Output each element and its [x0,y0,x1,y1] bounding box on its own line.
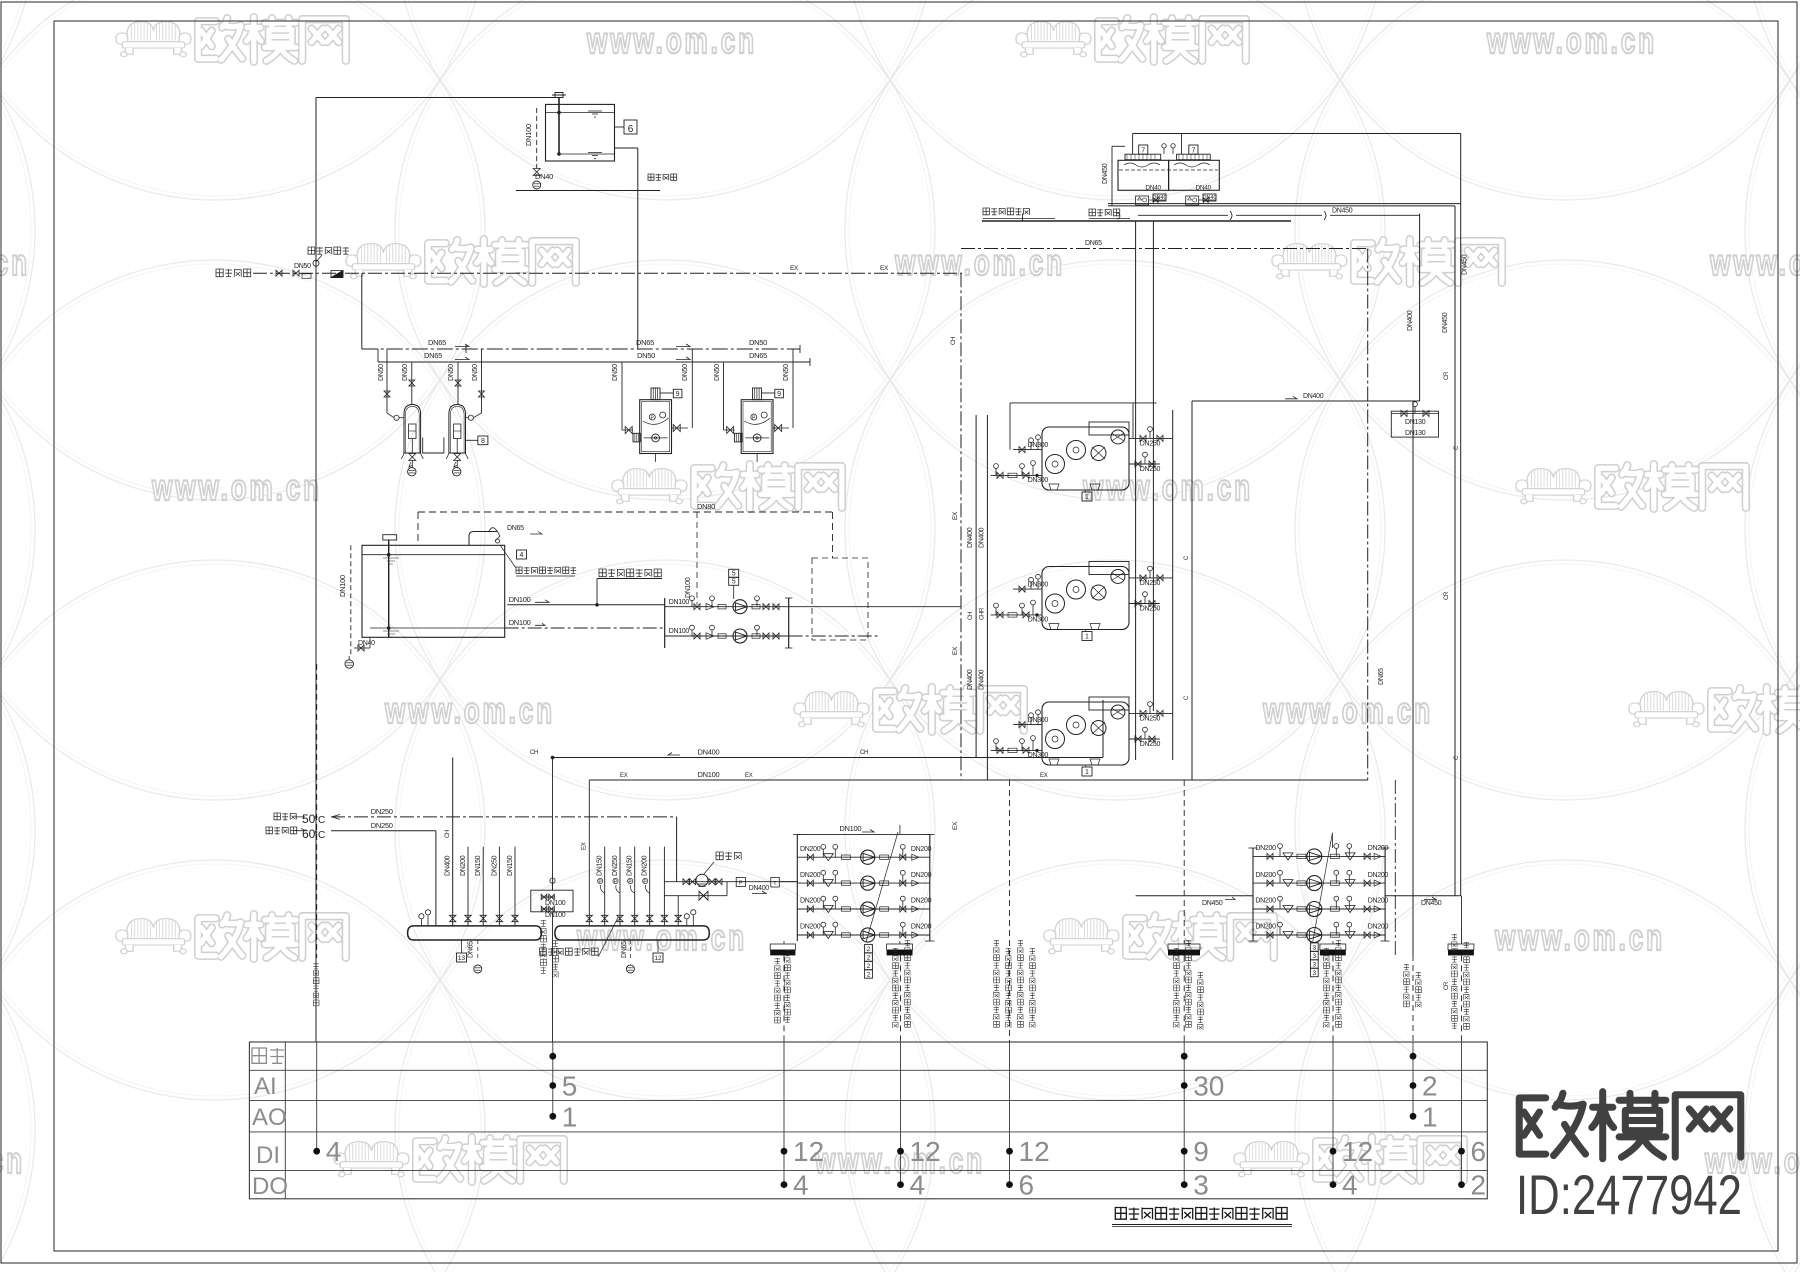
svg-text:3: 3 [1312,945,1316,952]
svg-text:DN200: DN200 [800,924,821,931]
svg-text:CH: CH [968,612,974,620]
svg-text:DN200: DN200 [1255,924,1276,931]
svg-text:12: 12 [793,1136,824,1167]
heat exchanger HX1 [640,400,672,454]
svg-text:DN200: DN200 [911,924,932,931]
svg-text:4: 4 [1342,1170,1358,1201]
wire: 60C drop to manifold [435,831,437,926]
svg-text:DN65: DN65 [507,525,524,532]
wire: CH DN400 main [553,757,1104,759]
wire: monitor column x=552.5 [552,758,554,891]
svg-text:www.om.cn: www.om.cn [1082,467,1253,508]
M1 drain: label 13 box [461,940,463,953]
svg-text:DN250: DN250 [1140,741,1161,748]
svg-text:DN40: DN40 [1196,185,1212,192]
tank left DN100 dashed level pipe [350,545,352,656]
svg-text:3: 3 [1193,1170,1209,1201]
svg-text:DN450: DN450 [1462,254,1469,275]
chiller unit CH3 [1042,702,1129,765]
svg-text:DI: DI [256,1142,280,1169]
svg-text:DN200: DN200 [1255,845,1276,852]
M1 end instruments [420,919,422,926]
roof slab line (thick) [982,220,1291,222]
svg-text:DN250: DN250 [371,807,393,816]
drain pan between vessels [423,438,444,454]
svg-text:5: 5 [732,579,736,586]
svg-text:DN150: DN150 [627,855,634,876]
wire: EX DN100 line [589,779,1367,781]
wire: EX expansion dash-dot riser [960,273,962,780]
leader diagonal bank1 [866,832,898,942]
svg-text:AI: AI [254,1073,277,1100]
wire: bank2 right header [1384,848,1386,941]
svg-text:DN130: DN130 [1405,430,1426,437]
svg-text:CHR: CHR [979,607,985,620]
svg-text:DN100: DN100 [524,124,533,146]
svg-text:DN200: DN200 [1368,898,1389,905]
pump P1-3 row [797,908,930,910]
IO table frame [249,1042,1487,1199]
filter riser DN50 c [457,362,459,404]
svg-text:DN100: DN100 [839,824,861,833]
svg-text:www.om.cn: www.om.cn [0,242,30,283]
valve DN40 under tank [369,637,371,648]
hx riser DN50 w3 [723,362,725,430]
svg-text:AO: AO [252,1104,287,1131]
wire: top line to right riser [1133,133,1461,135]
wire: chiller top connector [1010,402,1157,404]
chiller unit CH1 [1042,427,1129,490]
label stack 2222 [865,944,873,952]
svg-text:30: 30 [1193,1071,1224,1102]
wire: DN65 header to filters [362,348,800,350]
backflow preventer (filled wedge) [331,271,343,278]
watermark logo OMW bottom right [1519,1092,1741,1159]
svg-text:DN450: DN450 [1442,312,1449,333]
svg-text:3: 3 [1312,961,1316,968]
svg-text:DN200: DN200 [1368,845,1389,852]
svg-text:DN50: DN50 [682,364,689,381]
pump P2-1 row [1253,855,1385,857]
svg-text:EX: EX [952,821,959,830]
svg-text:DN200: DN200 [911,846,932,853]
bypass DN130 assembly [1391,411,1438,437]
pump P2-2 row [1253,882,1385,884]
svg-text:DN400: DN400 [1407,310,1414,331]
svg-text:DN300: DN300 [1028,582,1049,589]
cooling tower CT1 body [1118,160,1169,190]
svg-text:1: 1 [1085,769,1089,776]
svg-text:www.om.cn: www.om.cn [814,1140,985,1181]
svg-text:DN200: DN200 [800,898,821,905]
CT1 fan deck [1125,154,1161,160]
svg-text:DN200: DN200 [800,846,821,853]
svg-text:DN200: DN200 [460,855,467,876]
svg-text:2: 2 [867,963,871,970]
wire: from plate hx 60C [266,827,272,834]
svg-text:9: 9 [777,391,781,398]
svg-text:4: 4 [520,552,524,559]
svg-text:9: 9 [1193,1136,1209,1167]
label: degasser tuoqiji [716,852,723,860]
svg-text:12: 12 [654,955,662,962]
apartment pump row 2 [665,635,789,637]
AI row dots [549,1082,556,1089]
svg-text:DN65: DN65 [621,941,628,958]
wire: bank2 left header [1252,848,1254,941]
svg-text:www.om.cn: www.om.cn [0,1140,25,1181]
svg-text:4: 4 [326,1136,342,1167]
svg-text:DN100: DN100 [669,599,690,606]
svg-text:DN100: DN100 [669,628,690,635]
svg-text:DN400: DN400 [749,885,770,892]
svg-text:DN250: DN250 [1140,441,1161,448]
tank: chilled water storage tank [362,545,505,637]
svg-text:DN200: DN200 [1368,872,1389,879]
svg-text:DN50: DN50 [783,364,790,381]
wire: condenser water main supply [1108,203,1461,205]
svg-text:DN65: DN65 [428,338,446,347]
wire: left main vertical supply riser [315,98,317,1043]
hx riser DN50 w1 [621,362,623,430]
svg-text:1: 1 [562,1101,578,1132]
wire: degasser line [664,881,797,883]
power row dots [549,1053,556,1060]
svg-text:DN50: DN50 [612,364,619,381]
signal column: sec pumps [900,955,902,1042]
wire: water supply main dash-dot [253,272,962,274]
M2 extra risers with valves [663,847,665,926]
svg-text:2: 2 [867,955,871,962]
svg-text:DN300: DN300 [1028,717,1049,724]
wire: left link of right pump bank [1136,895,1253,897]
svg-text:EX: EX [620,773,628,779]
label boxes 5/5 [729,569,739,577]
svg-text:DN450: DN450 [1421,900,1442,907]
svg-text:www.om.cn: www.om.cn [151,467,322,508]
svg-text:DN65: DN65 [424,351,442,360]
wire: CHR return header DN400 [986,415,988,780]
svg-text:DN200: DN200 [911,898,932,905]
signal column: chiller valves [1009,780,1011,1042]
svg-text:DN200: DN200 [1255,898,1276,905]
tank drain DN100 dashed pipe [536,108,538,168]
roof line under tank [516,190,660,192]
svg-text:DN50: DN50 [637,351,655,360]
table row labels [252,1048,266,1063]
node: supply branch to filters [361,273,363,349]
svg-text:EX: EX [745,773,753,779]
wire: DN450 line to right pump bank [1385,895,1461,897]
manifold M1 (supply header) [408,926,542,940]
svg-text:8: 8 [481,438,485,445]
signal column: towers [1461,955,1463,1042]
svg-text:1: 1 [1085,494,1089,501]
svg-text:6: 6 [628,124,634,135]
filter vessel F2 [449,405,466,454]
right header of apartment pumps [788,598,790,648]
wire: bank1 left header [796,834,798,941]
pump P1-4 row [797,934,930,936]
signal column: cond pumps [1332,955,1334,1042]
svg-text:DN250: DN250 [1140,606,1161,613]
wire: tower left DN450 drop [1111,146,1113,205]
M2 end instruments [686,919,688,926]
svg-text:DN65: DN65 [749,351,767,360]
svg-text:EX: EX [880,265,889,272]
svg-text:DN100: DN100 [685,577,692,598]
svg-text:DN250: DN250 [1140,580,1161,587]
table column lines [316,1042,318,1151]
svg-text:DN65: DN65 [1378,668,1385,685]
gauge under F1 [408,468,416,476]
svg-text:www.om.cn: www.om.cn [1486,20,1657,61]
signal column: bypass [1412,955,1414,1042]
svg-text:P: P [739,881,743,887]
svg-text:DN250: DN250 [1140,466,1161,473]
wire DN100 return dash-dot [505,627,665,629]
svg-text:1: 1 [1422,1101,1438,1132]
svg-text:DN50: DN50 [749,338,767,347]
svg-text:www.om.cn: www.om.cn [576,917,747,958]
label: hotel roof (jiudian wumian) [648,174,654,180]
filter riser DN50 b [411,362,413,404]
svg-text:DN50: DN50 [472,364,479,381]
svg-text:DN300: DN300 [1028,442,1049,449]
tank inlet pipe vertical [388,540,390,637]
heat exchanger HX2 [741,400,773,454]
svg-text:1: 1 [1085,634,1089,641]
tower outlet assemblies [1136,196,1149,205]
svg-text:12: 12 [910,1136,941,1167]
CT2 motor box 7 [1189,145,1198,154]
svg-text:5: 5 [732,571,736,578]
svg-text:DN400: DN400 [1303,393,1324,400]
wire: degasser bypass with valve [664,895,727,897]
svg-text:www.om.cn: www.om.cn [1262,690,1433,731]
svg-text:DN100: DN100 [698,770,720,779]
M1 risers [450,915,456,921]
label box 12 [657,940,659,952]
svg-text:DN65: DN65 [1085,240,1102,247]
wire: DN400 riser x=1419.6 [1419,214,1421,402]
svg-text:DN130: DN130 [1405,419,1426,426]
degasser pump [696,874,708,886]
svg-text:DO: DO [252,1173,288,1200]
svg-text:DN400: DN400 [978,669,985,690]
svg-text:9: 9 [676,391,680,398]
label: hydraulic remote float valve [500,545,516,568]
svg-text:4: 4 [910,1170,926,1201]
svg-text:6: 6 [1019,1170,1035,1201]
svg-text:DN400: DN400 [978,527,985,548]
valve pair on supply [276,270,282,276]
terminal blocks bank1 [770,944,795,950]
svg-text:DN50: DN50 [448,364,455,381]
tank 6: roof expansion water tank [546,104,615,161]
svg-text:www.om.cn: www.om.cn [1709,242,1800,283]
svg-text:CH: CH [860,750,868,756]
label: drain to roof [1089,209,1095,216]
wire: DN65 drop to EX line [1367,249,1369,781]
svg-text:CR: CR [1444,371,1450,380]
svg-text:DN50: DN50 [294,263,311,270]
svg-text:DN450: DN450 [1202,900,1223,907]
svg-text:DN300: DN300 [1028,617,1049,624]
svg-text:3: 3 [1312,970,1316,977]
svg-text:EX: EX [1040,773,1048,779]
manifold tie DN100 assembly [531,890,573,912]
wire continue to EX riser [789,606,961,608]
cooling tower CT2 body [1169,160,1220,190]
valve on tank inlet [552,93,566,98]
pump P2-3 row [1253,908,1385,910]
label box 6 [614,126,624,128]
drawing title [1115,1208,1126,1220]
svg-text:DN250: DN250 [612,855,619,876]
svg-text:EX: EX [952,511,959,520]
svg-text:DN80: DN80 [697,502,715,511]
svg-text:DN100: DN100 [338,575,347,597]
DI row dots [313,1148,320,1155]
AO row dots [549,1113,556,1120]
CT1 motor box 7 [1139,145,1148,154]
float valve piping on tank top [469,532,497,546]
svg-text:DN150: DN150 [507,855,514,876]
pump P1-1 row [797,856,930,858]
pump P2-4 row [1253,934,1385,936]
wire: condenser risers C [1135,222,1137,761]
signal column: tank level alarm [313,963,318,969]
svg-text:CR: CR [1444,591,1450,600]
svg-text:EX: EX [790,265,799,272]
svg-text:DN100: DN100 [509,595,531,604]
svg-text:°C: °C [314,815,325,826]
hx riser DN50 w4 [792,349,794,427]
wire: right riser B x=1460.7 [1460,134,1462,896]
svg-text:DN65: DN65 [467,941,474,958]
svg-text:DN200: DN200 [1255,872,1276,879]
wire: DN400 horizontal to bypass [1192,400,1420,402]
svg-text:DN50: DN50 [378,364,385,381]
svg-text:CH: CH [530,750,538,756]
wire DN100 supply to pumps [507,604,664,606]
filter vessel F1 [404,405,421,454]
terminal blocks chiller columns [1168,944,1200,950]
svg-text:DN100: DN100 [545,912,566,919]
svg-text:DN40: DN40 [358,640,375,647]
svg-text:DN400: DN400 [698,748,720,757]
svg-text:5: 5 [562,1071,578,1102]
instrument P on supply [315,266,317,273]
svg-text:DN200: DN200 [1368,924,1389,931]
svg-text:DN100: DN100 [509,618,531,627]
filter riser DN50 a [386,349,388,413]
label: connect water supply pipe [216,269,223,277]
wire: right riser A x=1455 [1454,206,1456,896]
svg-text:7: 7 [1191,147,1195,154]
svg-text:DN65: DN65 [636,338,654,347]
wire: level column [316,664,318,958]
svg-text:12: 12 [1019,1136,1050,1167]
svg-text:www.om.cn: www.om.cn [384,690,555,731]
svg-text:DN200: DN200 [642,855,649,876]
svg-text:EX: EX [582,842,588,850]
svg-text:CH: CH [951,337,957,345]
svg-text:2: 2 [1422,1071,1438,1102]
svg-text:°C: °C [314,830,325,841]
wire: 50C drop to degasser line [676,817,678,882]
wire: top horizontal to roof tank [316,97,559,99]
wire: bypass vertical down [1412,401,1414,955]
pump P1-2 row [797,882,930,884]
wire: condenser riser right [1172,410,1174,760]
apartment pump row 1 [664,598,666,648]
svg-text:DN150: DN150 [597,855,604,876]
label: to apartment heating system [599,569,606,577]
hx riser DN50 w2 [691,349,693,427]
valve DN40 tank drain [533,169,540,176]
gauge under tank [345,660,353,668]
wire: DN400 riser from manifold [452,758,454,926]
svg-text:DN150: DN150 [475,855,482,876]
manifold M2 (return header) [555,926,709,940]
wire: second roof line [1138,214,1228,216]
CT2 fan deck [1177,154,1211,160]
svg-text:www.om.cn: www.om.cn [1494,917,1665,958]
svg-text:DN200: DN200 [911,872,932,879]
svg-text:2: 2 [1471,1170,1487,1201]
svg-text:2: 2 [867,946,871,953]
svg-text:7: 7 [1141,147,1145,154]
wire: bank1 right header [929,834,931,941]
chiller unit CH2 [1042,567,1129,630]
wire: DN50 second header [378,361,810,363]
svg-text:DN250: DN250 [491,855,498,876]
label: static balance valve [598,917,618,957]
wire: dash-dot C line x=1395 [1394,780,1396,955]
wire: condenser water main return [1108,205,1455,207]
wire: tower top supply [1132,134,1134,155]
label box 8 [465,439,478,441]
svg-text:DN400: DN400 [967,669,974,690]
wire: to plate hx 50C [274,813,280,820]
filter riser DN50 d [481,349,483,413]
svg-text:DN200: DN200 [800,872,821,879]
DO row dots [781,1181,788,1188]
label: machine room 6F roof [983,208,989,215]
svg-text:DN300: DN300 [1028,477,1049,484]
svg-text:DN400: DN400 [967,527,974,548]
svg-text:DN250: DN250 [1140,716,1161,723]
svg-text:CH: CH [445,830,451,838]
svg-text:CR: CR [1444,981,1450,990]
svg-text:6: 6 [1471,1136,1487,1167]
svg-text:DN40: DN40 [1145,185,1161,192]
label box 4 [517,550,527,559]
wire: makeup DN65 [1022,214,1024,222]
svg-text:DN100: DN100 [545,900,566,907]
dashed instrument box right [812,558,868,640]
leader diagonal bank2 [1313,833,1333,942]
svg-text:DN400: DN400 [445,855,452,876]
svg-text:DN250: DN250 [371,821,393,830]
svg-text:3: 3 [1312,953,1316,960]
svg-text:DN450: DN450 [1102,163,1109,184]
svg-text:www.om.cn: www.om.cn [586,20,757,61]
M2 risers [588,780,590,926]
svg-text:4: 4 [793,1170,809,1201]
